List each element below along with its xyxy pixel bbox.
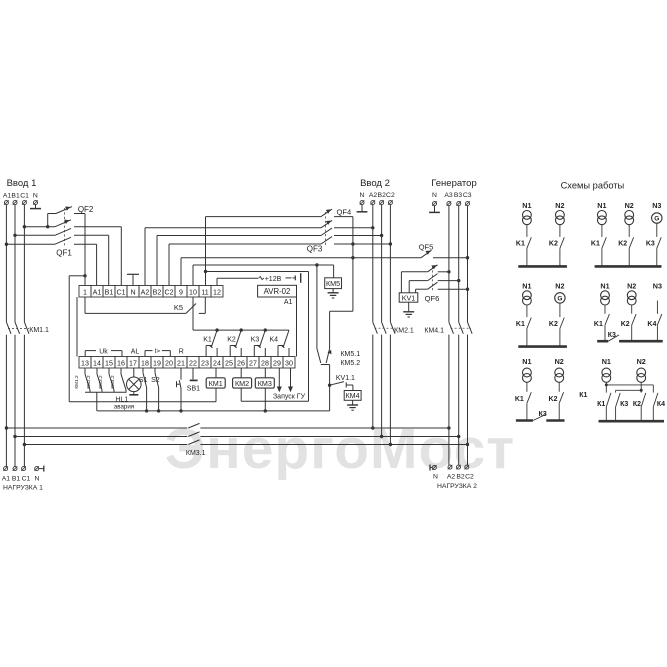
svg-text:N3: N3 [652,201,661,210]
svg-text:КМ1: КМ1 [209,379,223,388]
svg-text:13: 13 [81,359,89,367]
svg-text:N1: N1 [522,201,531,210]
svg-text:N3: N3 [653,281,662,290]
svg-text:Схемы работы: Схемы работы [561,181,625,191]
svg-text:К2: К2 [633,401,641,408]
svg-text:КМ3.2: КМ3.2 [98,375,103,389]
svg-text:G: G [557,296,562,303]
svg-text:КМ3: КМ3 [258,379,272,388]
svg-text:KV1.1: KV1.1 [336,375,355,382]
svg-text:N1: N1 [522,281,531,290]
svg-text:K1: K1 [591,241,600,248]
svg-text:N: N [432,192,437,199]
svg-text:N2: N2 [625,201,634,210]
svg-text:22: 22 [189,359,197,367]
svg-text:K2: K2 [549,396,558,403]
svg-text:23: 23 [201,359,209,367]
svg-text:K1: K1 [516,321,525,328]
svg-text:19: 19 [153,359,161,367]
svg-text:A1: A1 [2,476,11,483]
svg-text:К3: К3 [620,401,628,408]
svg-text:A2: A2 [447,474,456,481]
svg-text:K4: K4 [647,321,656,328]
svg-text:Запуск ГУ: Запуск ГУ [273,393,306,400]
svg-text:Ввод 2: Ввод 2 [360,178,390,189]
svg-text:N2: N2 [627,281,636,290]
svg-text:QF6: QF6 [425,294,440,303]
svg-text:HL1: HL1 [115,396,128,403]
svg-text:1: 1 [83,288,87,296]
svg-text:НАГРУЗКА 1: НАГРУЗКА 1 [3,485,43,492]
svg-text:C2: C2 [386,192,395,199]
svg-text:SB1: SB1 [187,386,200,393]
svg-text:A1: A1 [93,288,102,296]
svg-text:A2: A2 [369,192,378,199]
svg-text:27: 27 [249,359,257,367]
svg-text:21: 21 [177,359,185,367]
svg-text:N: N [360,192,365,199]
svg-text:N: N [433,474,438,481]
svg-text:10: 10 [189,288,197,296]
svg-text:A1: A1 [284,299,293,306]
svg-text:КМ5.1: КМ5.1 [340,351,360,358]
svg-text:QF2: QF2 [78,205,94,214]
svg-text:17: 17 [129,359,137,367]
svg-text:K3: K3 [646,241,655,248]
svg-text:НАГРУЗКА 2: НАГРУЗКА 2 [437,483,477,490]
svg-text:Генератор: Генератор [431,178,477,189]
svg-text:K2: K2 [549,321,558,328]
svg-text:K1: K1 [515,396,524,403]
svg-text:C3: C3 [463,192,472,199]
svg-text:QF1: QF1 [56,248,72,257]
svg-text:КМ2.2: КМ2.2 [86,375,91,389]
svg-text:КМ1.1: КМ1.1 [29,327,49,334]
svg-text:N: N [34,476,39,483]
svg-text:QF3: QF3 [307,245,323,254]
svg-text:N2: N2 [555,201,564,210]
svg-text:9: 9 [179,288,183,296]
svg-text:K2: K2 [227,337,236,344]
svg-text:C1: C1 [22,476,31,483]
svg-text:KV1: KV1 [402,293,416,302]
svg-text:КМ5.2: КМ5.2 [340,360,360,367]
svg-text:30: 30 [285,359,293,367]
svg-text:A1: A1 [3,192,12,199]
svg-text:20: 20 [165,359,173,367]
svg-text:КМ5: КМ5 [326,279,340,288]
svg-text:C1: C1 [116,288,125,296]
svg-text:A2: A2 [141,288,150,296]
svg-text:18: 18 [141,359,149,367]
svg-text:K5: K5 [174,303,183,312]
svg-text:B1: B1 [11,192,20,199]
svg-text:K1: K1 [594,321,603,328]
svg-text:K3: K3 [251,337,260,344]
svg-text:K1: K1 [203,337,212,344]
svg-text:N2: N2 [555,357,564,366]
svg-text:Uk: Uk [99,348,108,355]
svg-text:C1: C1 [20,192,29,199]
svg-text:К1: К1 [579,392,587,399]
svg-text:Ввод 1: Ввод 1 [7,178,37,189]
svg-text:K2: K2 [618,241,627,248]
svg-text:QF4: QF4 [337,208,352,217]
svg-text:K1: K1 [516,241,525,248]
svg-text:К1: К1 [597,401,605,408]
svg-text:N1: N1 [597,201,606,210]
svg-text:КМ3.1: КМ3.1 [186,450,206,457]
svg-text:B1: B1 [105,288,114,296]
svg-text:14: 14 [93,359,101,367]
svg-text:N1: N1 [522,357,531,366]
svg-text:КМ1.2: КМ1.2 [74,375,79,389]
svg-text:N2: N2 [637,357,646,366]
svg-text:КМ4.2: КМ4.2 [110,375,115,389]
svg-text:12: 12 [213,288,221,296]
svg-text:КМ2: КМ2 [235,379,249,388]
svg-text:C2: C2 [164,288,173,296]
svg-text:авария: авария [114,403,134,410]
svg-text:N2: N2 [555,281,564,290]
svg-text:К4: К4 [657,401,665,408]
svg-text:11: 11 [201,288,208,296]
svg-text:15: 15 [105,359,113,367]
svg-text:QF5: QF5 [419,242,434,251]
svg-text:G: G [654,216,659,223]
svg-text:I>: I> [154,348,160,355]
svg-text:A3: A3 [444,192,453,199]
svg-text:N1: N1 [600,281,609,290]
svg-text:26: 26 [237,359,245,367]
svg-text:КМ2.1: КМ2.1 [394,327,414,334]
svg-text:N: N [130,288,135,296]
svg-text:K2: K2 [549,241,558,248]
svg-text:16: 16 [117,359,125,367]
svg-text:B2: B2 [456,474,465,481]
svg-text:K4: K4 [270,337,279,344]
svg-text:B2: B2 [378,192,387,199]
svg-text:B1: B1 [12,476,21,483]
svg-text:R: R [179,348,184,355]
svg-text:25: 25 [225,359,233,367]
svg-text:S2: S2 [151,377,160,384]
svg-text:24: 24 [213,359,221,367]
svg-text:+12В: +12В [265,276,282,283]
svg-text:28: 28 [261,359,269,367]
svg-text:AVR-02: AVR-02 [264,287,291,296]
svg-text:N1: N1 [602,357,611,366]
svg-text:N: N [33,192,38,199]
svg-text:C2: C2 [465,474,474,481]
svg-text:КМ4: КМ4 [346,391,360,400]
svg-text:КМ4.1: КМ4.1 [424,327,444,334]
svg-text:K2: K2 [621,321,630,328]
svg-text:B3: B3 [454,192,463,199]
svg-text:ЭнергоМост: ЭнергоМост [165,417,515,481]
svg-text:B2: B2 [153,288,162,296]
svg-text:AL: AL [131,348,140,355]
svg-text:S1: S1 [139,377,148,384]
svg-text:29: 29 [273,359,281,367]
